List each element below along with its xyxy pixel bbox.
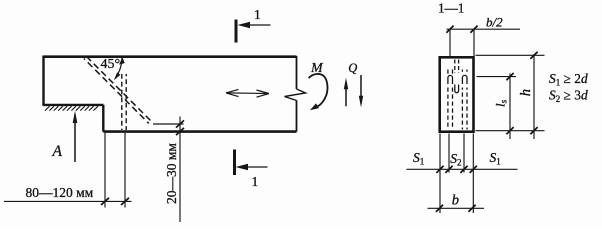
b ticks [436,205,476,212]
tick b/2 right [470,26,477,33]
beam right edge break symbol [285,89,306,101]
longitudinal double arrow [226,92,269,95]
section mark 1 top [235,20,238,43]
beam notch step edge [102,105,104,132]
extension lines for 80-120 mm [105,133,125,208]
svg-text:20—30 мм: 20—30 мм [164,143,179,204]
h dimension line [533,54,535,139]
svg-text:h: h [518,89,534,96]
tick at crack level [176,120,184,127]
shear force Q arrows [345,88,347,106]
suspension stirrups (dashed pair, left fig) [121,74,123,130]
bottom extension line [476,130,545,132]
svg-text:M: M [310,61,324,76]
tick at beam bottom [176,128,184,135]
svg-text:b/2: b/2 [486,14,503,29]
S ticks [436,166,477,173]
dimension line 80-120 mm [4,200,132,202]
svg-text:Q: Q [348,61,357,75]
b/2 dimension line [447,28,521,30]
svg-text:1: 1 [254,7,261,22]
ls ticks [506,73,513,134]
moment M curved arrow [309,74,328,107]
h ticks [530,52,537,135]
beam left edge [42,56,44,106]
beam shallow bottom edge (above support) [43,104,104,106]
beam top edge [44,55,297,58]
S dimension line [407,168,518,170]
svg-text:S1 ≥ 2d: S1 ≥ 2d [549,71,588,88]
stirrup center pair top dashes [455,60,459,74]
crack tip extension line [153,123,184,125]
stirrup center u hook [455,85,459,93]
stirrup left pair legs dashed [448,70,453,130]
support reaction arrow A [74,121,76,162]
S extension lines below section [440,134,473,214]
svg-text:A: A [52,143,63,160]
inclined crack (double dashed 45 deg line) [86,56,151,121]
section rectangle [440,57,474,131]
svg-text:S2 ≥ 3d: S2 ≥ 3d [549,88,588,105]
svg-text:1: 1 [252,174,259,189]
dimension line 20-30 mm (vertical) [179,117,181,223]
ls mid extension line [477,76,517,78]
tick at x=125 [121,198,129,205]
beam right edge lower [296,100,298,131]
svg-text:45°: 45° [101,57,121,72]
svg-text:b: b [452,193,459,209]
tick at x=105 [101,198,109,205]
tick b/2 left [446,26,453,33]
45 degree angle arc [115,57,122,79]
svg-text:1—1: 1—1 [438,1,464,16]
b dimension line [428,207,485,209]
beam right edge upper [296,56,298,89]
stirrup left hook [448,75,453,84]
ls dimension line [509,74,511,140]
beam bottom edge [103,130,296,133]
b/2 extension lines [450,29,474,56]
h top extension line [476,54,545,56]
stirrup right pair legs dashed [462,70,467,130]
svg-text:80—120 мм: 80—120 мм [26,185,94,200]
stirrup right hook [462,75,467,84]
support hatch [45,106,98,110]
section mark 1 bottom [233,150,236,176]
